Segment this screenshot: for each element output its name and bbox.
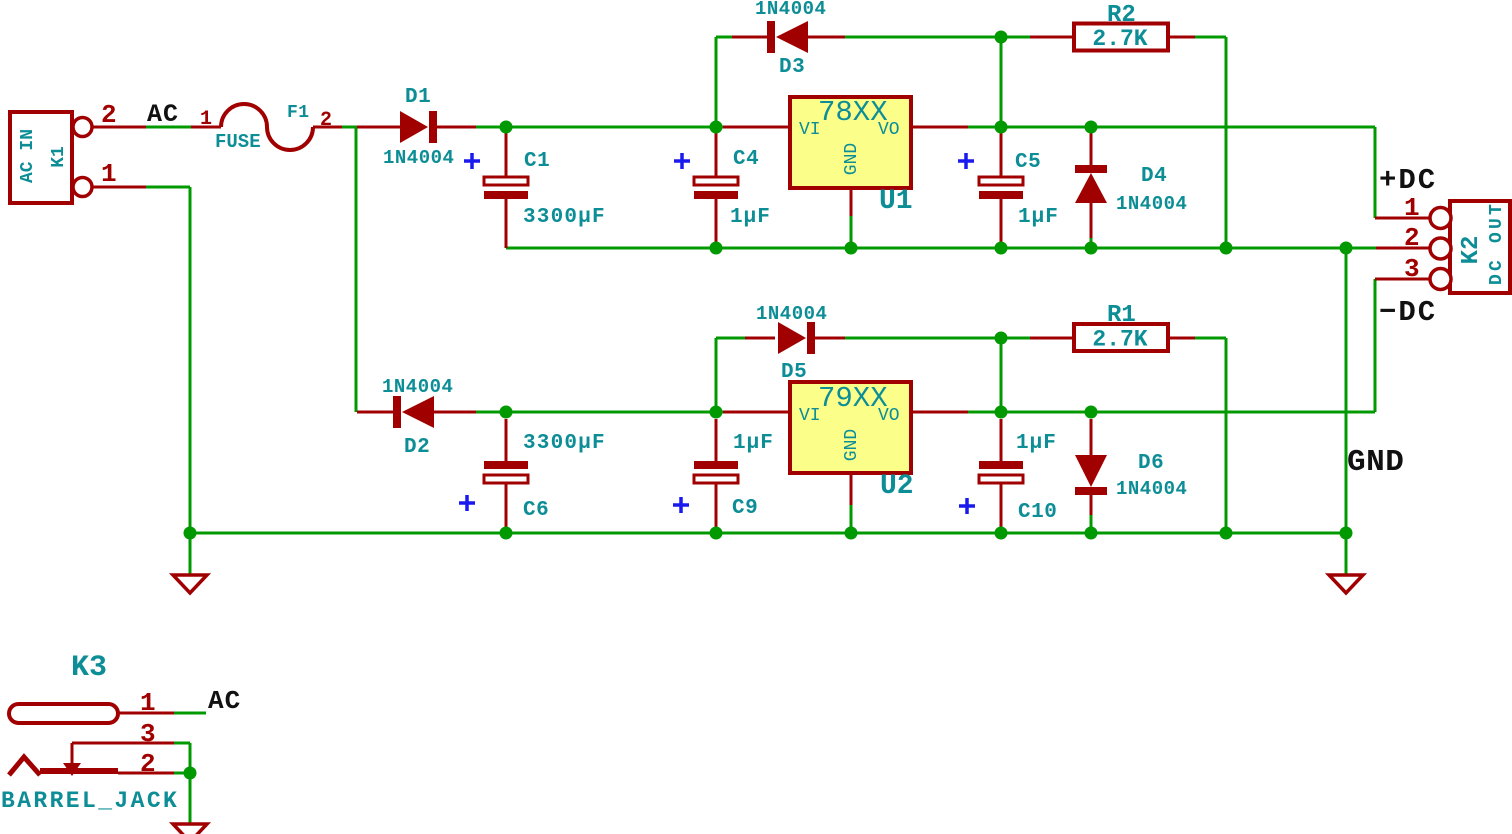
svg-text:GND: GND xyxy=(842,429,862,461)
svg-text:−DC: −DC xyxy=(1379,296,1437,329)
svg-text:C4: C4 xyxy=(733,148,759,171)
svg-text:F1: F1 xyxy=(287,103,310,123)
svg-text:K3: K3 xyxy=(71,651,107,685)
svg-text:K2: K2 xyxy=(1458,236,1485,265)
svg-text:D3: D3 xyxy=(779,56,805,79)
svg-text:2: 2 xyxy=(140,749,156,779)
svg-text:AC: AC xyxy=(147,100,179,129)
svg-text:+DC: +DC xyxy=(1379,164,1437,197)
svg-text:U2: U2 xyxy=(880,471,914,502)
svg-text:BARREL_JACK: BARREL_JACK xyxy=(1,788,179,814)
svg-text:D1: D1 xyxy=(405,86,431,109)
svg-text:1µF: 1µF xyxy=(733,432,774,455)
svg-text:2: 2 xyxy=(1404,223,1420,253)
svg-text:AC: AC xyxy=(208,686,241,716)
svg-text:GND: GND xyxy=(1347,445,1404,480)
svg-text:2: 2 xyxy=(101,100,117,130)
svg-text:VO: VO xyxy=(878,120,900,140)
svg-text:C10: C10 xyxy=(1018,501,1057,524)
svg-text:1µF: 1µF xyxy=(1018,206,1059,229)
svg-text:1: 1 xyxy=(200,108,212,131)
svg-text:R2: R2 xyxy=(1107,2,1136,29)
svg-text:3300µF: 3300µF xyxy=(523,432,606,455)
svg-text:C1: C1 xyxy=(524,150,550,173)
svg-text:2: 2 xyxy=(320,109,332,132)
svg-text:1µF: 1µF xyxy=(730,206,771,229)
svg-text:1: 1 xyxy=(1404,193,1420,223)
svg-text:GND: GND xyxy=(842,143,862,175)
svg-text:1µF: 1µF xyxy=(1016,432,1057,455)
svg-text:2.7K: 2.7K xyxy=(1092,327,1147,353)
svg-text:AC IN: AC IN xyxy=(18,129,38,183)
svg-text:U1: U1 xyxy=(879,186,913,217)
svg-text:3: 3 xyxy=(140,719,156,749)
svg-text:FUSE: FUSE xyxy=(215,131,261,153)
svg-text:1N4004: 1N4004 xyxy=(1116,478,1187,500)
svg-text:D5: D5 xyxy=(781,361,807,384)
svg-text:1: 1 xyxy=(101,159,117,189)
svg-text:VI: VI xyxy=(799,120,821,140)
svg-text:C6: C6 xyxy=(523,499,549,522)
svg-text:VO: VO xyxy=(878,406,900,426)
svg-text:C9: C9 xyxy=(732,497,758,520)
svg-text:1N4004: 1N4004 xyxy=(755,0,826,20)
svg-text:1N4004: 1N4004 xyxy=(1116,193,1187,215)
svg-text:3: 3 xyxy=(1404,254,1420,284)
svg-text:VI: VI xyxy=(799,406,821,426)
svg-text:K1: K1 xyxy=(49,146,69,168)
svg-text:D2: D2 xyxy=(404,436,430,459)
svg-text:1N4004: 1N4004 xyxy=(382,376,453,398)
svg-text:2.7K: 2.7K xyxy=(1092,26,1147,52)
svg-text:D6: D6 xyxy=(1138,452,1164,475)
svg-text:R1: R1 xyxy=(1107,302,1136,329)
svg-text:1: 1 xyxy=(140,688,156,718)
svg-text:1N4004: 1N4004 xyxy=(383,147,454,169)
svg-text:DC OUT: DC OUT xyxy=(1487,201,1507,285)
svg-text:C5: C5 xyxy=(1015,151,1041,174)
svg-text:D4: D4 xyxy=(1141,165,1167,188)
svg-text:1N4004: 1N4004 xyxy=(756,303,827,325)
svg-text:3300µF: 3300µF xyxy=(523,206,606,229)
